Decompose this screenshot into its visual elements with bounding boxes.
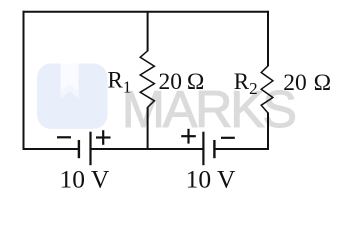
svg-text:20Ω: 20Ω xyxy=(283,70,331,96)
wire: bottom-left segment (left corner to battery V1 negative plate) xyxy=(23,148,79,150)
svg-text:R2: R2 xyxy=(234,69,258,98)
resistor R1 zigzag xyxy=(140,51,154,108)
wire: right side lower (R2 down to bottom-right corner) xyxy=(267,113,269,151)
wire: right side upper (top-right corner down to R2) xyxy=(267,11,269,67)
watermark (decorative) drawn first: pale logo square + gray MARKS text xyxy=(37,64,295,140)
svg-text:R1: R1 xyxy=(108,67,132,96)
wire: middle branch lower (R1 down to bottom wire) xyxy=(147,107,149,150)
wire: bottom-right segment (V2 to right corner) xyxy=(214,148,269,150)
resistor R2 zigzag xyxy=(261,66,273,113)
wire: bottom-middle segment (V1 to V2, includes junction with R1 branch) xyxy=(90,148,203,150)
polarity sign plus (V2) xyxy=(181,129,196,144)
wire: top side of loop xyxy=(23,11,270,13)
battery V2 (10 V), short negative plate xyxy=(213,140,215,158)
polarity sign plus (V1) xyxy=(96,130,111,145)
polarity sign minus (V1) xyxy=(57,136,71,138)
battery V2 (10 V), long positive plate xyxy=(202,132,204,166)
polarity sign minus (V2) xyxy=(221,137,235,139)
wire: middle branch upper (top wire down to R1) xyxy=(147,12,149,52)
svg-text:10 V: 10 V xyxy=(60,165,110,194)
battery V1 (10 V), long positive plate xyxy=(89,132,91,166)
svg-text:10 V: 10 V xyxy=(186,165,236,194)
battery V1 (10 V), short negative plate xyxy=(78,140,80,158)
wire: left side of loop xyxy=(23,11,25,150)
svg-text:20Ω: 20Ω xyxy=(159,69,205,95)
